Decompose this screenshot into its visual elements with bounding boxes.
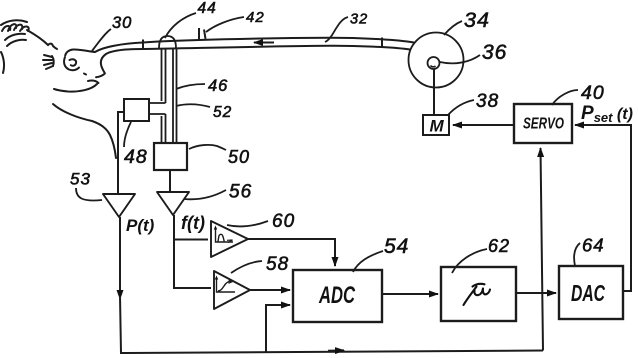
svg-text:53: 53 — [70, 170, 91, 189]
svg-text:SERVO: SERVO — [523, 116, 564, 133]
svg-text:30: 30 — [112, 14, 132, 32]
svg-text:44: 44 — [198, 0, 217, 17]
svg-text:DAC: DAC — [571, 280, 605, 306]
svg-text:38: 38 — [476, 91, 499, 112]
svg-text:54: 54 — [384, 235, 409, 258]
svg-text:34: 34 — [464, 8, 490, 32]
svg-text:58: 58 — [266, 254, 289, 275]
svg-text:56: 56 — [229, 182, 252, 203]
svg-text:60: 60 — [272, 211, 295, 232]
svg-text:P(t): P(t) — [126, 216, 155, 235]
svg-text:32: 32 — [350, 12, 368, 28]
svg-text:50: 50 — [228, 147, 250, 167]
svg-text:M: M — [430, 117, 445, 136]
svg-text:36: 36 — [482, 41, 507, 64]
svg-text:40: 40 — [581, 82, 605, 104]
svg-text:ADC: ADC — [318, 282, 355, 309]
svg-text:48: 48 — [124, 146, 148, 168]
svg-text:42: 42 — [246, 9, 265, 26]
svg-text:46: 46 — [208, 77, 228, 95]
svg-text:52: 52 — [213, 104, 232, 121]
svg-text:f(t): f(t) — [181, 213, 205, 233]
svg-text:62: 62 — [488, 236, 510, 256]
svg-text:Pset (t): Pset (t) — [581, 103, 633, 125]
svg-text:64: 64 — [582, 235, 605, 256]
